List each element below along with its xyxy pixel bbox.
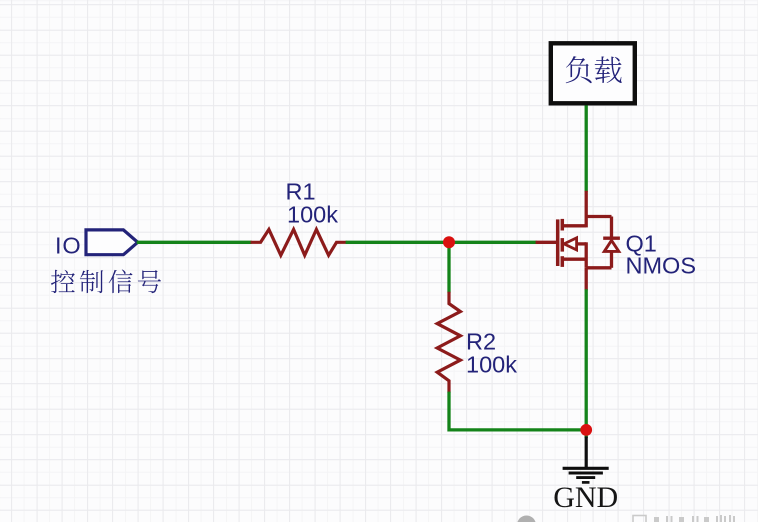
body diode of Q1 — [603, 217, 620, 268]
svg-text:IO: IO — [55, 233, 81, 259]
wire port to R1 — [137, 241, 252, 244]
junction node B (source / ground) — [580, 424, 592, 436]
label R1 — [286, 179, 316, 205]
wire R1 to Q1 gate — [346, 241, 537, 244]
wire Q1 source to node B — [585, 289, 588, 430]
resistor R2 — [437, 292, 460, 393]
svg-text:100k: 100k — [466, 352, 517, 378]
transistor Q1 NMOS — [536, 191, 612, 290]
svg-text:GND: GND — [553, 481, 618, 514]
label R2 — [466, 329, 496, 355]
svg-text:100k: 100k — [287, 202, 338, 228]
label 负载 (load) — [566, 56, 622, 83]
net label GND — [553, 481, 618, 514]
watermark circle (bottom, clipped) — [517, 516, 536, 522]
designator Q1 — [626, 231, 657, 257]
label 控制信号 (control signal) — [51, 270, 161, 294]
watermark text fragments (bottom edge, clipped) — [633, 515, 735, 522]
ground — [563, 437, 609, 483]
value label 100k (R2) — [466, 352, 517, 378]
junction node A (gate / R2 top) — [443, 236, 455, 248]
value label 100k (R1) — [287, 202, 338, 228]
port IO (control signal input) — [86, 230, 138, 255]
label NMOS — [626, 253, 697, 279]
net label IO — [55, 233, 81, 259]
wire node B to ground symbol — [585, 430, 588, 438]
wire node A down to R2 — [447, 242, 450, 292]
svg-text:NMOS: NMOS — [626, 253, 697, 279]
wire R2 bottom to ground rail — [449, 392, 586, 430]
wire load to Q1 drain — [585, 105, 588, 191]
resistor R1 — [251, 229, 347, 255]
load box 负载 — [551, 43, 635, 103]
